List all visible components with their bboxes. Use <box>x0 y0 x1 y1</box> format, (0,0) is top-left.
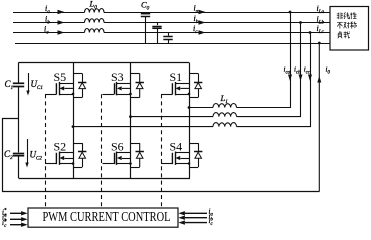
wire neutral return drop (neutral to dc midpoint return) <box>318 43 320 192</box>
wire gate drive dashed line leg2 (S3/S6 gates to controller) <box>101 94 103 208</box>
wire DC positive rail (top) <box>19 62 190 64</box>
node phase A tap junction <box>289 11 292 14</box>
wire DC negative rail (bottom) <box>19 178 191 180</box>
node leg3 output junction <box>188 106 191 109</box>
arrow U_C2 voltage arrow (down) <box>25 139 28 168</box>
svg-text:S6: S6 <box>111 140 124 154</box>
node S2 source junction <box>72 162 75 165</box>
diode of S1 (antiparallel freewheel diode) <box>189 74 202 98</box>
wire phase B line (source bus) <box>13 22 330 24</box>
arrow line current phase C <box>199 30 206 35</box>
wire compensation drop phase C with corner to inductor row 3 <box>237 33 311 127</box>
CJK text row 2: bu dui chen <box>337 22 357 29</box>
node S4 source junction <box>188 162 191 165</box>
transistor S1 (MOSFET) <box>161 82 189 95</box>
capacitor C0 bank (filter capacitors to neutral) <box>141 12 173 43</box>
svg-text:S4: S4 <box>170 140 183 154</box>
diode of S3 (antiparallel freewheel diode) <box>131 74 144 98</box>
svg-text:S3: S3 <box>111 70 124 84</box>
wire inverter leg 3 vertical (S1/S4) <box>189 63 191 179</box>
wire compensation drop phase A with corner to inductor row 1 <box>237 12 291 108</box>
wire compensation drop phase B with corner to inductor row 2 <box>237 23 301 117</box>
transistor S3 (MOSFET) <box>103 82 131 95</box>
wire leg1 output row3 <box>73 126 213 128</box>
arrow compensation current phase B (down) <box>299 75 303 82</box>
svg-text:S2: S2 <box>54 140 67 154</box>
diode of S5 (antiparallel freewheel diode) <box>73 74 86 98</box>
node leg2 output junction <box>129 115 132 118</box>
node phase B tap junction <box>299 21 302 24</box>
wire phase C line (source bus) <box>13 32 330 34</box>
node S6 source junction <box>129 162 132 165</box>
arrow measured current input b (into controller right) <box>178 216 207 220</box>
transistor S4 (MOSFET) <box>161 152 189 165</box>
arrow reference current input a (into controller left) <box>10 211 28 215</box>
wire inverter leg 1 vertical (S5/S2) <box>73 63 75 179</box>
svg-text:PWM CURRENT CONTROL: PWM CURRENT CONTROL <box>43 209 171 224</box>
wire gate drive dashed line leg3 (S1/S4 gates to controller) <box>161 94 163 208</box>
diode of S4 (antiparallel freewheel diode) <box>189 143 202 167</box>
CJK text row 3: fu zai (load) <box>338 31 350 38</box>
capacitor C2 (lower DC-link capacitor) <box>13 154 24 179</box>
inductor L0 (three-phase series filter inductor) <box>85 9 105 33</box>
arrow U_C1 voltage arrow (down) <box>26 73 29 96</box>
wire DC midpoint return path (midpoint to outer-left, bottom, up to neutral) <box>3 119 320 192</box>
transistor S2 (MOSFET) <box>45 152 73 165</box>
arrow source current phase B <box>58 20 65 25</box>
capacitor C1 (upper DC-link capacitor) <box>13 63 24 153</box>
arrow reference current input b (into controller left) <box>10 217 28 221</box>
arrow measured current input c (into controller right) <box>178 220 207 224</box>
arrow compensation current phase A (down) <box>288 75 292 82</box>
node S5 source junction <box>72 93 75 96</box>
controller box PWM CURRENT CONTROL <box>28 208 178 227</box>
node S1 source junction <box>188 93 191 96</box>
CJK text row 1: fei xian xing <box>337 12 357 19</box>
inductor L1 (inverter output inductor, three rows) <box>213 103 237 126</box>
arrow measured current input a (into controller right) <box>178 211 207 215</box>
arrow line current phase B <box>199 20 206 25</box>
node neutral tap junction <box>318 42 321 45</box>
wire neutral line <box>15 43 330 45</box>
svg-text:S5: S5 <box>54 70 67 84</box>
arrow source current phase C <box>58 30 65 35</box>
transistor S6 (MOSFET) <box>103 152 131 165</box>
wire phase A line (source bus) <box>13 12 330 14</box>
node S3 source junction <box>129 93 132 96</box>
diode of S6 (antiparallel freewheel diode) <box>131 143 144 167</box>
arrow i_0 neutral current (up) <box>317 76 321 83</box>
node leg1 output junction <box>72 125 75 128</box>
arrow reference current input c (into controller left) <box>10 223 28 227</box>
wire inverter leg 2 vertical (S3/S6) <box>130 63 132 179</box>
svg-text:S1: S1 <box>170 70 183 84</box>
wire gate drive dashed line leg1 (S5/S2 gates to controller) <box>45 94 47 208</box>
arrow source current phase A <box>58 10 65 15</box>
wire leg2 output row2 <box>131 116 214 118</box>
load box: nonlinear unsymmetrical load (CJK text drawn as strokes) <box>330 7 369 51</box>
transistor S5 (MOSFET) <box>45 82 73 95</box>
arrow compensation current phase C (down) <box>308 75 312 82</box>
wire leg3 output row1 <box>189 107 213 109</box>
arrow line current phase A <box>199 10 206 15</box>
node phase C tap junction <box>309 31 312 34</box>
diode of S2 (antiparallel freewheel diode) <box>73 143 86 167</box>
